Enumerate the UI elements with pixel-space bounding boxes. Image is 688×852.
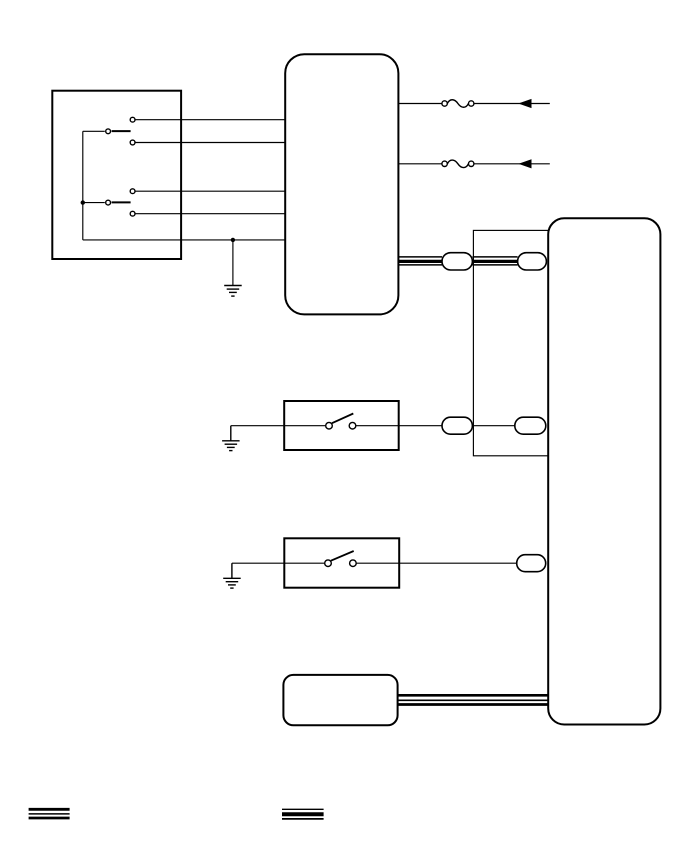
legend: coax cable symbol [29, 809, 70, 818]
junction: bus to switch SW2 [81, 200, 85, 204]
wire C3 to C4 [472, 425, 514, 427]
wire bus bottom to module [83, 239, 285, 241]
wire fuse F2 to battery feed [474, 163, 550, 165]
arrow: power feed 2 [520, 160, 531, 168]
wire contact3 to module [136, 190, 285, 192]
wire ground G3 to switch box 2 [232, 562, 284, 564]
wire to fuse F2 [399, 163, 442, 165]
wire: bus to switch SW1 [83, 130, 105, 132]
connector C3 [442, 417, 472, 434]
switch SW1 blade [112, 130, 131, 132]
wire contact2 to module [136, 142, 285, 144]
wire: bus to switch SW2 [83, 202, 105, 204]
control switch unit box [52, 91, 181, 259]
legend: shielded cable symbol [282, 809, 324, 819]
wire switch SW3 to connector C3 [356, 425, 442, 427]
wire inside switch box 1 [284, 425, 325, 427]
fuse F1 [442, 100, 474, 108]
main harness module (right) [548, 218, 660, 724]
wire fuse F1 to battery feed [474, 103, 550, 105]
switch SW2 blade [112, 201, 131, 203]
wire to fuse F1 [399, 103, 442, 105]
wire: internal bus vertical [82, 131, 84, 240]
connector C5 [517, 555, 546, 572]
switch SW4 [325, 551, 357, 567]
ground G3 [223, 563, 241, 588]
fuse F2 [442, 160, 474, 168]
ground G2 [222, 426, 240, 451]
wire contact4 to module [136, 213, 285, 215]
connector C1 [442, 253, 472, 270]
connector C4 [515, 417, 546, 434]
switch box 1 [284, 401, 399, 450]
wire inside switch box 2 [284, 562, 324, 564]
antenna module (bottom) [283, 675, 397, 725]
wire contact1 to module [136, 119, 285, 121]
switch SW3 [326, 414, 356, 430]
ground G1 [224, 286, 242, 297]
main control module [285, 54, 398, 314]
contact 2 [130, 140, 135, 145]
connector C2 [518, 253, 547, 270]
coax cable: antenna to harness module [398, 695, 549, 704]
shielded cable: module to connector C1 [399, 257, 442, 265]
shielded cable: C1 to C2 [472, 257, 517, 265]
contact 1 [130, 117, 135, 122]
wire switch SW4 to connector C5 [356, 562, 517, 564]
junction: ground node [231, 238, 235, 242]
switch SW1 pole [106, 129, 111, 134]
switch box 2 [284, 538, 399, 587]
wire: ground drop [232, 240, 234, 286]
switch SW2 pole [106, 200, 111, 205]
contact 4 [130, 211, 135, 216]
wire ground G2 to switch box 1 [231, 425, 284, 427]
connector junction block [473, 230, 548, 455]
arrow: power feed 1 [520, 100, 531, 108]
contact 3 [130, 189, 135, 194]
